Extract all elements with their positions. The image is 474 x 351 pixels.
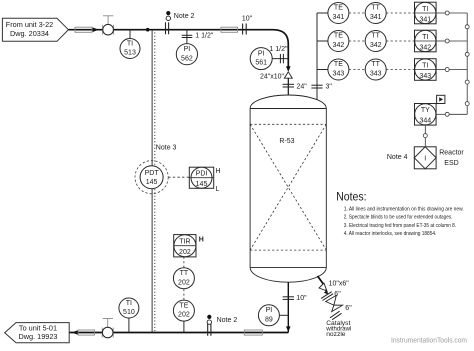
svg-text:TI: TI [127, 40, 133, 47]
svg-text:H: H [199, 237, 204, 244]
svg-text:343: 343 [419, 73, 431, 80]
svg-text:6": 6" [334, 291, 341, 298]
svg-text:I: I [424, 155, 426, 162]
svg-text:Note 3: Note 3 [156, 145, 177, 152]
svg-text:TT: TT [371, 61, 380, 68]
svg-text:TT: TT [371, 5, 380, 12]
svg-text:PDT: PDT [145, 170, 160, 177]
svg-text:Notes:: Notes: [336, 189, 367, 203]
svg-text:From unit 3-22: From unit 3-22 [6, 20, 53, 29]
svg-text:341: 341 [333, 14, 345, 21]
svg-text:2. Spectacle blinds to be used: 2. Spectacle blinds to be used for exten… [344, 215, 453, 221]
svg-text:Dwg. 20334: Dwg. 20334 [10, 29, 49, 38]
svg-text:TE: TE [334, 61, 343, 68]
svg-text:343: 343 [370, 70, 382, 77]
svg-text:562: 562 [181, 55, 193, 62]
svg-text:R-53: R-53 [279, 138, 294, 145]
svg-text:1 1/2": 1 1/2" [269, 46, 288, 53]
svg-text:513: 513 [124, 50, 136, 57]
svg-text:342: 342 [370, 42, 382, 49]
svg-text:L: L [216, 186, 220, 193]
svg-text:10"x6": 10"x6" [329, 280, 350, 287]
svg-text:InstrumentationTools.com: InstrumentationTools.com [391, 337, 467, 344]
svg-text:1. All lines and instrumentati: 1. All lines and instrumentation on this… [344, 206, 464, 212]
svg-text:24"x10": 24"x10" [260, 73, 285, 80]
svg-text:nozzle: nozzle [326, 331, 346, 338]
svg-text:TE: TE [334, 33, 343, 40]
svg-text:24": 24" [297, 84, 308, 91]
svg-text:3": 3" [326, 84, 333, 91]
svg-text:202: 202 [178, 312, 190, 319]
svg-text:TY: TY [421, 107, 430, 114]
svg-text:TI: TI [422, 34, 428, 41]
svg-text:TI: TI [422, 6, 428, 13]
svg-text:561: 561 [255, 60, 267, 67]
svg-text:341: 341 [370, 14, 382, 21]
svg-text:TI: TI [126, 300, 132, 307]
svg-text:343: 343 [333, 70, 345, 77]
svg-text:Reactor: Reactor [439, 150, 464, 157]
svg-text:341: 341 [419, 16, 431, 23]
svg-text:344: 344 [419, 117, 431, 124]
svg-text:PI: PI [258, 50, 265, 57]
svg-text:H: H [216, 168, 221, 175]
svg-text:Note 2: Note 2 [217, 317, 238, 324]
svg-text:342: 342 [333, 42, 345, 49]
svg-text:TIR: TIR [179, 239, 190, 246]
svg-text:10": 10" [242, 15, 253, 22]
svg-text:Note 2: Note 2 [174, 13, 195, 20]
svg-text:Dwg. 19923: Dwg. 19923 [19, 332, 58, 341]
svg-text:TE: TE [179, 302, 188, 309]
svg-text:3. Electrical tracing fed from: 3. Electrical tracing fed from panel ET-… [344, 223, 456, 229]
svg-text:TI: TI [422, 63, 428, 70]
svg-text:TT: TT [371, 33, 380, 40]
svg-text:TT: TT [180, 270, 189, 277]
svg-text:PI: PI [266, 307, 273, 314]
svg-text:202: 202 [178, 279, 190, 286]
svg-text:89: 89 [265, 316, 273, 323]
svg-text:6": 6" [345, 305, 352, 312]
svg-text:PDI: PDI [196, 171, 208, 178]
svg-text:510: 510 [123, 309, 135, 316]
svg-text:ESD: ESD [444, 160, 458, 167]
svg-text:4. All reactor interlocks, see: 4. All reactor interlocks, see drawing 1… [344, 231, 437, 237]
svg-text:PI: PI [184, 46, 191, 53]
svg-text:145: 145 [196, 181, 208, 188]
svg-text:202: 202 [179, 249, 191, 256]
svg-text:342: 342 [419, 44, 431, 51]
svg-text:1 1/2": 1 1/2" [195, 32, 214, 39]
svg-text:TE: TE [334, 5, 343, 12]
svg-text:Note 4: Note 4 [387, 154, 408, 161]
svg-text:10": 10" [296, 295, 307, 302]
svg-text:145: 145 [146, 179, 158, 186]
